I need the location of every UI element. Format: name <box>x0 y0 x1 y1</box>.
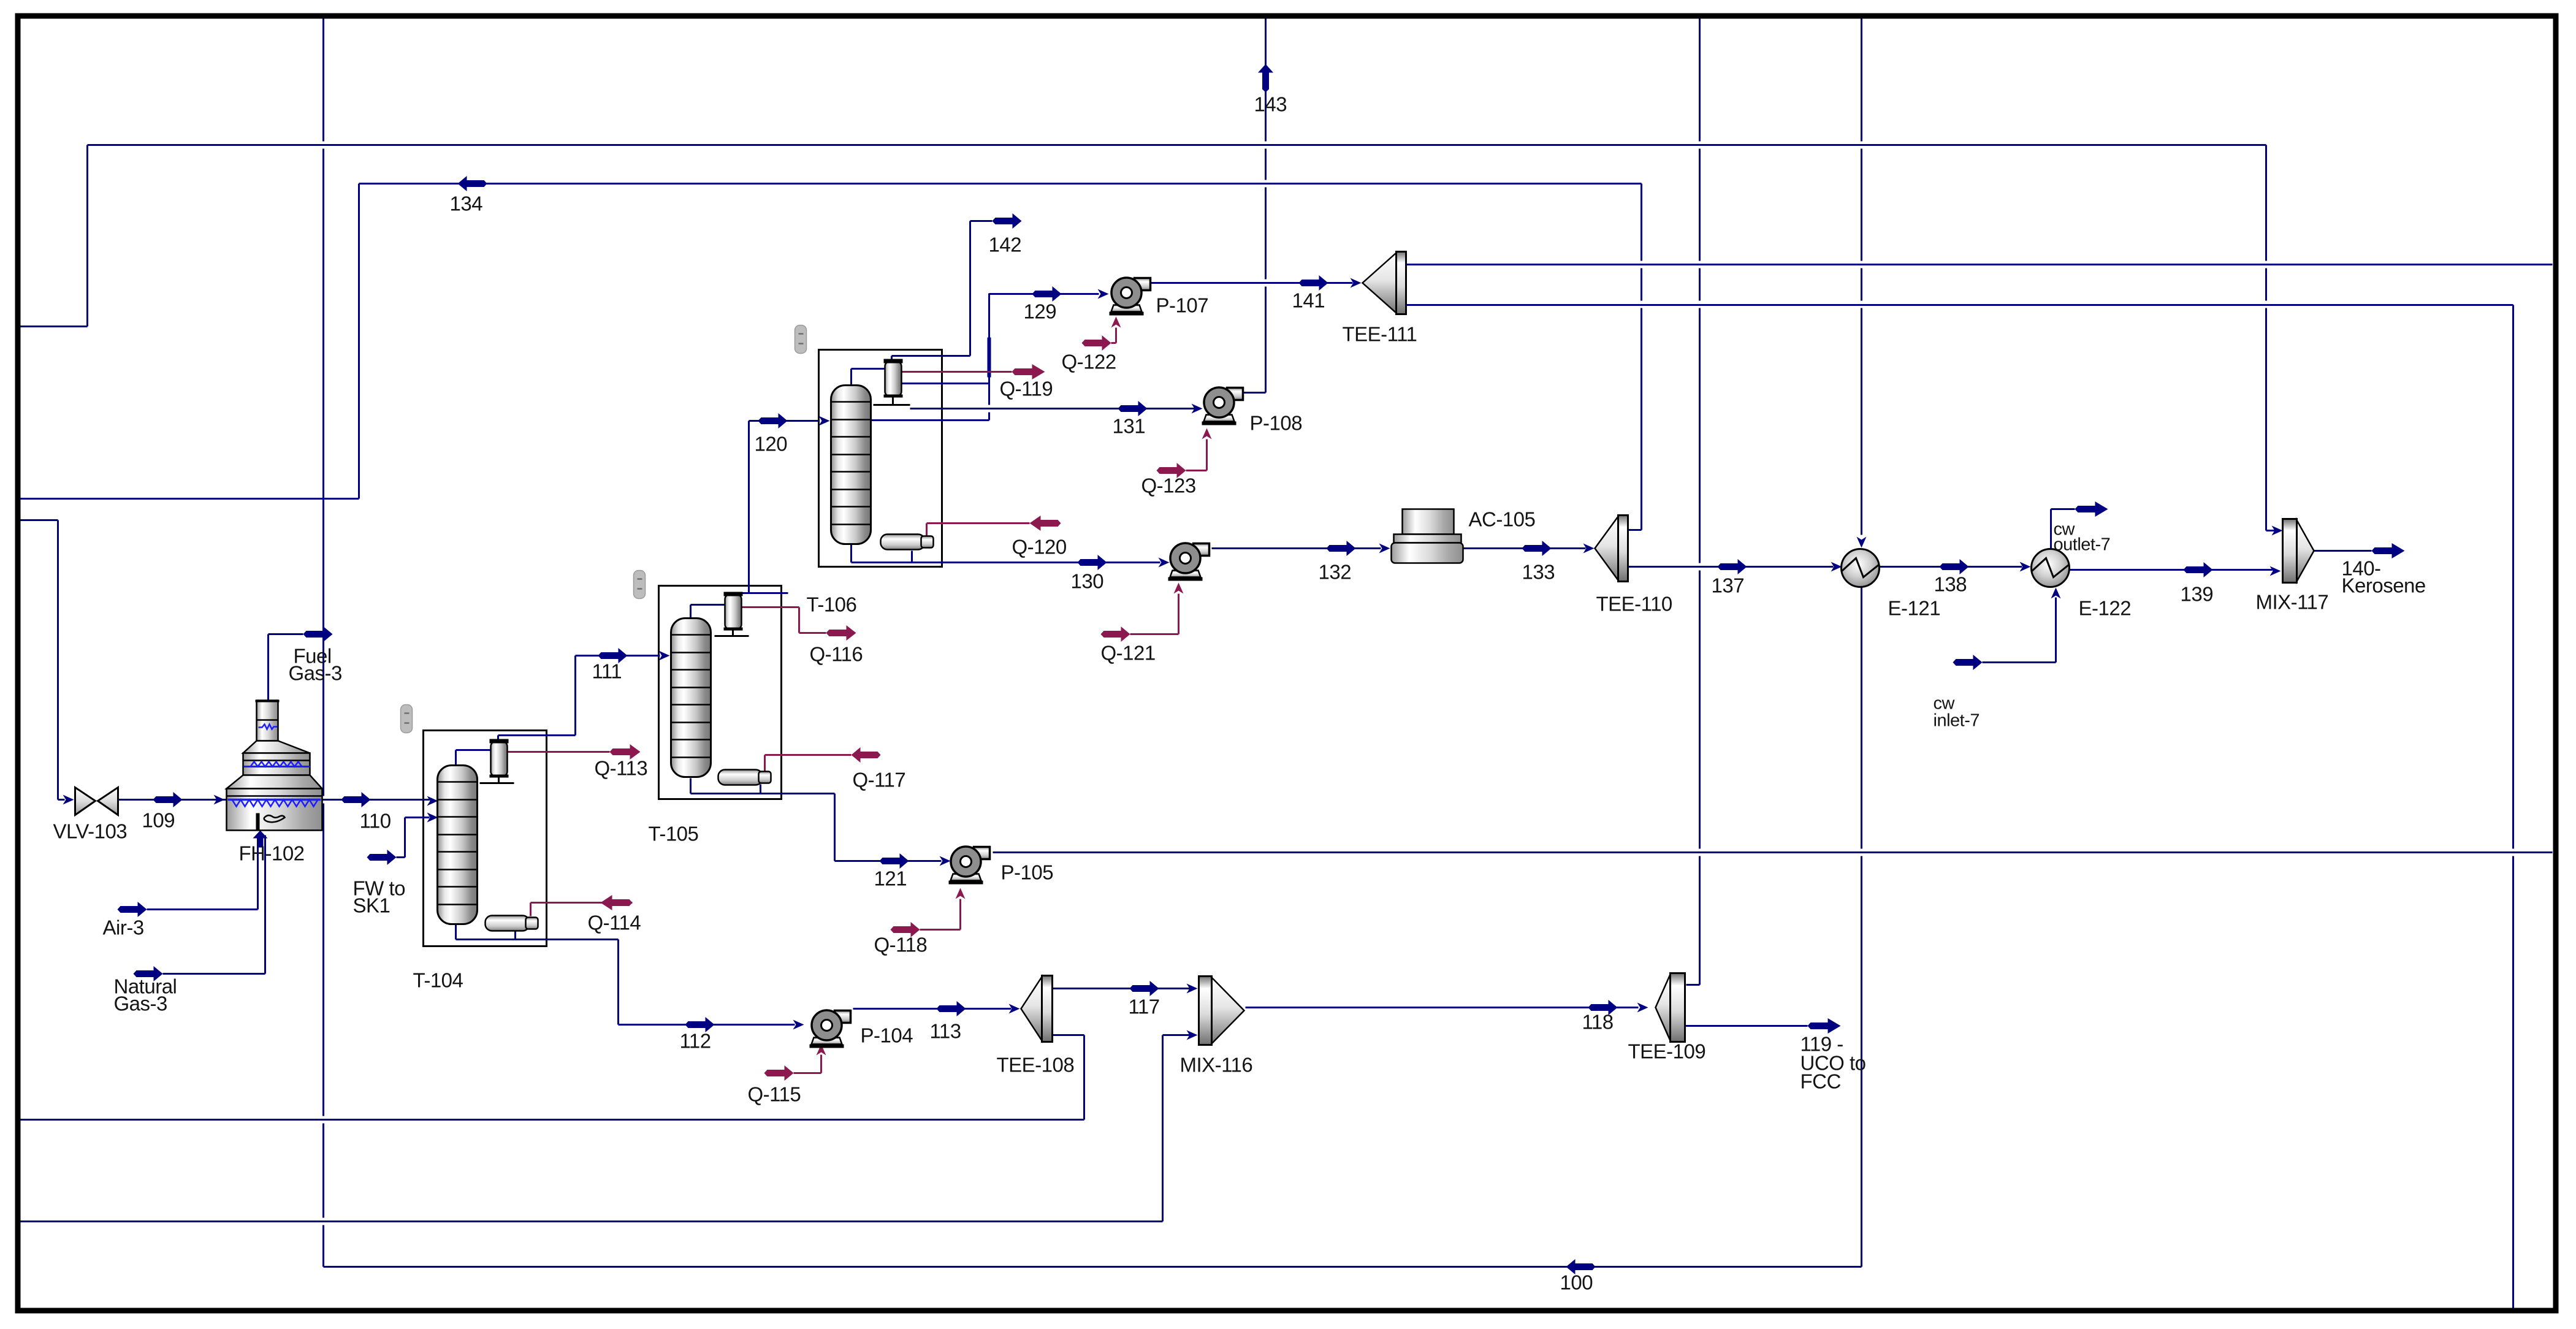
mixer MIX-116 <box>1199 977 1244 1045</box>
svg-text:110: 110 <box>360 810 391 832</box>
anchor glyph near T-104 <box>401 705 413 733</box>
anchor glyph near T-106 <box>795 326 807 354</box>
svg-text:VLV-103: VLV-103 <box>53 820 128 843</box>
svg-text:Gas-3: Gas-3 <box>114 992 167 1015</box>
column T-105 <box>671 619 711 777</box>
svg-text:134: 134 <box>450 192 483 215</box>
svg-text:Q-114: Q-114 <box>588 912 641 934</box>
wire stream 130: T-106 bottoms to P-106 <box>852 543 1170 571</box>
svg-text:TEE-109: TEE-109 <box>1628 1040 1706 1063</box>
pump P-107 <box>1110 278 1151 316</box>
svg-text:Q-122: Q-122 <box>1062 351 1116 373</box>
svg-text:Air-3: Air-3 <box>103 916 144 939</box>
svg-text:TEE-111: TEE-111 <box>1343 323 1417 346</box>
wire stream 112: T-104 bottoms to P-104 <box>456 924 804 1033</box>
svg-text:129: 129 <box>1024 300 1057 323</box>
svg-text:121: 121 <box>874 867 907 890</box>
wire stream 142: T-106 condenser top vent <box>892 213 1022 362</box>
wire stream 110: FH-102 to T-104 <box>322 792 438 807</box>
svg-text:TEE-110: TEE-110 <box>1596 593 1672 615</box>
svg-text:120: 120 <box>755 433 788 455</box>
svg-text:113: 113 <box>930 1020 961 1043</box>
wire Q-122 energy to P-107 <box>1082 317 1121 351</box>
wire stream 134: TEE-110 top out, up x=2677, left y=299, down x=585, left y=813 to border <box>19 176 1642 530</box>
svg-text:139: 139 <box>2181 583 2214 606</box>
air cooler AC-105 <box>1392 509 1463 563</box>
wire FW to SK1 feed into T-104 <box>367 813 438 866</box>
anchor glyph near T-105 <box>634 571 646 599</box>
wire stream 113: P-104 to TEE-108 <box>853 1001 1020 1016</box>
wire cw inlet-7 to E-122 bottom <box>1953 588 2061 671</box>
wire stream 137: TEE-110 to E-121 <box>1629 559 1842 574</box>
wire long vertical x=2772: top border down to TEE-109 top outlet <box>1686 18 1700 985</box>
wire Air-3 feed to FH-102 <box>118 836 258 918</box>
condenser of T-105 <box>724 592 743 631</box>
svg-text:Gas-3: Gas-3 <box>289 662 342 685</box>
svg-text:112: 112 <box>680 1030 711 1053</box>
wire long vertical x=527 from top border down to y=2066 and stream 100 leftmost corner <box>322 18 324 1267</box>
condenser of T-104 <box>490 739 509 778</box>
svg-text:Q-120: Q-120 <box>1012 536 1067 558</box>
wire stream 118: MIX-116 to TEE-109 <box>1246 1000 1648 1015</box>
wire stream 120: T-105 condenser top to T-106 feed <box>734 413 830 595</box>
wire Fuel Gas-3 from FH-102 stack <box>269 626 333 701</box>
wire stream 138: E-121 to E-122 <box>1880 559 2031 574</box>
svg-text:E-122: E-122 <box>2079 597 2132 620</box>
svg-text:Q-116: Q-116 <box>810 643 863 666</box>
svg-text:131: 131 <box>1113 415 1146 438</box>
pump P-104 <box>810 1010 851 1048</box>
svg-text:Kerosene: Kerosene <box>2342 574 2426 597</box>
wire cw outlet-7 from E-122 top <box>2051 501 2108 550</box>
wire stream from left border via node(142,236) along H1 y=236 to MIX-117 drop <box>19 145 2283 536</box>
svg-text:Q-121: Q-121 <box>1101 642 1156 664</box>
reboiler of T-104 <box>486 916 538 931</box>
wire TEE-111 top outlet y=431 to right border <box>1406 264 2553 265</box>
wire stream 143: vertical x=2064 from top border to P-108 discharge, fat up arrow <box>1244 18 1274 393</box>
svg-text:130: 130 <box>1071 570 1104 593</box>
wire Natural Gas-3 feed to FH-102 <box>134 831 268 982</box>
pump P-106 <box>1168 543 1210 581</box>
wire stream 131: T-106 side draw to P-108 <box>910 401 1203 416</box>
svg-text:P-104: P-104 <box>861 1024 913 1047</box>
sub-flowsheet box T-105 <box>659 586 782 799</box>
svg-text:FCC: FCC <box>1801 1070 1841 1093</box>
column T-104 <box>438 766 478 924</box>
wire Q-115 energy to P-104 <box>764 1045 826 1081</box>
wire feed from left border y=848 down x=94 to VLV-103 <box>19 520 74 805</box>
wire long vertical x=3036: top border through E-121 down to y=2066 <box>1857 18 1867 1267</box>
splitter TEE-109 <box>1656 973 1685 1042</box>
svg-text:SK1: SK1 <box>353 894 391 917</box>
wire stream 109: VLV-103 to FH-102 <box>118 792 227 807</box>
wire stream 100 horizontal y=2066 with left arrow <box>324 1259 1862 1274</box>
svg-text:Q-113: Q-113 <box>595 757 648 780</box>
column T-106 <box>831 386 871 544</box>
wire Q-123 energy to P-108 <box>1157 428 1212 479</box>
wire TEE-111 bottom outlet y=497 right then down x=4099 to bottom border <box>1406 305 2513 1308</box>
svg-text:T-105: T-105 <box>649 823 699 845</box>
svg-text:142: 142 <box>989 234 1022 256</box>
wire TEE-108 bottom outlet down x=1768 left y=1826 to border <box>19 1035 1084 1120</box>
svg-text:MIX-117: MIX-117 <box>2256 591 2329 614</box>
svg-text:138: 138 <box>1934 573 1967 596</box>
svg-text:T-104: T-104 <box>413 969 463 992</box>
splitter TEE-110 <box>1595 516 1628 582</box>
pump P-105 <box>949 847 990 885</box>
wire stream 119-UCO to FCC out of TEE-109 <box>1685 1018 1841 1034</box>
svg-text:P-107: P-107 <box>1156 294 1209 317</box>
wire stream 132: P-106 to AC-105 <box>1212 541 1390 556</box>
fired heater FH-102 <box>227 701 322 831</box>
svg-text:inlet-7: inlet-7 <box>1934 711 1980 731</box>
mixer MIX-117 <box>2283 519 2314 583</box>
heat exchanger E-122 <box>2032 549 2070 587</box>
svg-text:E-121: E-121 <box>1888 597 1941 620</box>
svg-text:111: 111 <box>592 660 622 683</box>
splitter TEE-108 <box>1021 976 1053 1042</box>
wire Q-120 energy to T-106 reboiler <box>927 516 1061 542</box>
wire stream 111: T-104 condenser up to T-105 feed <box>498 648 670 742</box>
svg-text:FH-102: FH-102 <box>239 842 305 865</box>
wire Q-121 energy to P-106 <box>1101 583 1184 642</box>
wire T-106 column top to condenser <box>852 369 885 386</box>
svg-text:P-105: P-105 <box>1001 861 1054 884</box>
svg-text:TEE-108: TEE-108 <box>997 1054 1075 1076</box>
svg-text:AC-105: AC-105 <box>1469 508 1536 531</box>
svg-text:Q-123: Q-123 <box>1141 474 1196 497</box>
sub-flowsheet box T-106 <box>819 350 942 567</box>
svg-text:117: 117 <box>1129 996 1160 1018</box>
wire from left border y=1992 up x=1896 to MIX-116 lower inlet <box>19 1030 1198 1222</box>
sub-flowsheet box T-104 <box>424 731 547 946</box>
svg-text:MIX-116: MIX-116 <box>1180 1054 1253 1076</box>
svg-text:Q-115: Q-115 <box>748 1083 801 1106</box>
wire stream 117: TEE-108 to MIX-116 <box>1053 981 1198 996</box>
svg-text:133: 133 <box>1522 561 1555 584</box>
reboiler of T-106 <box>881 535 934 550</box>
svg-text:outlet-7: outlet-7 <box>2054 535 2111 555</box>
svg-text:Q-118: Q-118 <box>874 934 928 956</box>
svg-text:143: 143 <box>1254 93 1287 116</box>
wire Q-113 energy from T-104 condenser <box>506 744 641 760</box>
svg-text:T-106: T-106 <box>807 593 857 616</box>
wire T-106 condenser outlet junction x=1613 <box>902 294 989 421</box>
wire stream 140-Kerosene out of MIX-117 <box>2314 543 2405 558</box>
wire stream 133: AC-105 to TEE-110 <box>1463 541 1595 556</box>
wire Q-117 energy to T-105 reboiler <box>765 747 881 772</box>
wire Q-118 energy to P-105 <box>891 888 966 938</box>
wire stream 121: T-105 bottoms to P-105 <box>691 779 951 869</box>
wire stream 141: P-107 discharge to TEE-111 <box>1149 275 1362 291</box>
condenser of T-106 <box>884 359 903 398</box>
svg-text:P-108: P-108 <box>1250 412 1303 435</box>
svg-text:Q-119: Q-119 <box>1000 378 1053 400</box>
wire T-106 reflux return y=685 <box>871 419 989 421</box>
wire stream 139: E-122 to MIX-117 <box>2070 562 2281 577</box>
pump P-108 <box>1202 387 1243 425</box>
wire Q-116 energy from T-105 condenser <box>741 607 856 641</box>
heat exchanger E-121 <box>1842 549 1880 587</box>
reboiler of T-105 <box>718 770 771 785</box>
svg-text:141: 141 <box>1292 289 1325 312</box>
svg-text:109: 109 <box>142 809 175 832</box>
wire stream 129: to P-107 <box>989 286 1109 302</box>
svg-text:Q-117: Q-117 <box>853 769 906 791</box>
splitter TEE-111 <box>1363 252 1406 314</box>
svg-text:118: 118 <box>1582 1011 1614 1034</box>
wire Q-114 energy to T-104 reboiler <box>531 895 633 916</box>
wire T-104 column top to condenser <box>456 750 491 766</box>
valve VLV-103 <box>75 788 118 815</box>
svg-text:137: 137 <box>1712 574 1745 597</box>
wire P-105 discharge y=1390 to right border <box>993 851 2553 853</box>
svg-text:132: 132 <box>1319 561 1352 584</box>
svg-text:100: 100 <box>1560 1271 1593 1294</box>
wire Q-119 energy from T-106 condenser <box>900 364 1045 379</box>
wire T-105 column top to condenser <box>691 605 725 619</box>
